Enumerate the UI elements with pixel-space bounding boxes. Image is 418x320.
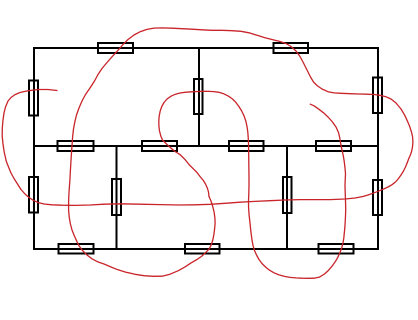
wire left vertical <box>33 47 35 250</box>
resistor R3 <box>29 81 38 116</box>
wire center vertical top row <box>198 47 200 146</box>
wire top horizontal <box>33 47 379 49</box>
wire bottom horizontal <box>33 248 379 250</box>
resistor R8 <box>229 141 264 151</box>
red loop stroke right-side arc <box>154 28 413 163</box>
wire vertical bottom row right <box>286 146 288 249</box>
red loop stroke left hook and far-left descent <box>2 90 104 206</box>
resistor R9 <box>316 141 351 151</box>
resistor R2 <box>274 43 309 53</box>
resistor R14 <box>59 244 94 254</box>
wire right vertical <box>377 47 379 250</box>
wire vertical bottom row left <box>116 146 118 249</box>
red loop stroke top-left descent through R1 and R6 <box>69 28 154 240</box>
resistor R10 <box>29 177 38 213</box>
red loop stroke bottom-left arc <box>76 197 215 277</box>
red loop stroke long bottom horizontal <box>104 163 407 206</box>
resistor R15 <box>185 244 220 254</box>
red loop stroke rising diagonal to small loop <box>159 91 209 196</box>
red loop stroke bottom-right rise and vertical return <box>310 104 345 278</box>
resistor R16 <box>319 244 354 254</box>
resistor R12 <box>283 177 292 213</box>
wire middle horizontal <box>33 145 379 147</box>
resistor R5 <box>373 78 382 114</box>
resistor R11 <box>112 179 121 215</box>
resistor R7 <box>142 141 177 151</box>
resistor R6 <box>58 141 94 151</box>
resistor R4 <box>194 79 203 114</box>
resistor R1 <box>98 43 133 53</box>
resistor R13 <box>373 180 382 215</box>
red loop stroke curl down through middle into bottom-right arc <box>209 91 314 278</box>
